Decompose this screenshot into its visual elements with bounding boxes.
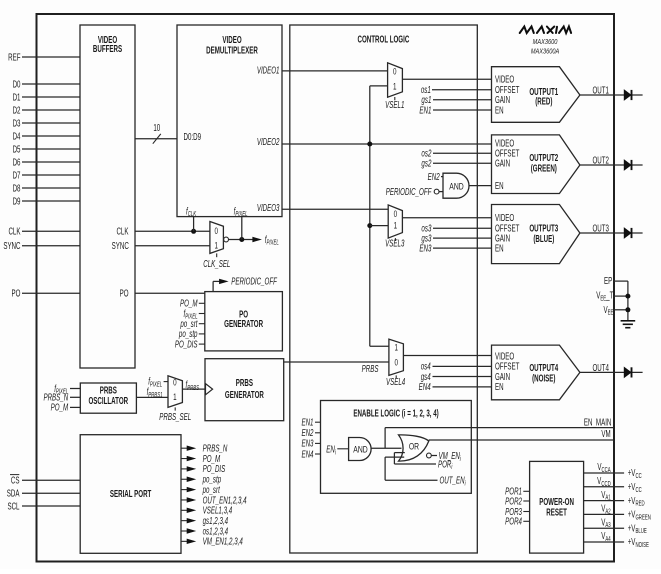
net VM_ENi	[431, 455, 437, 457]
svg-text:CS: CS	[11, 474, 20, 486]
output stage OUTPUT3	[492, 205, 580, 264]
serial port output po_stp	[181, 478, 189, 480]
svg-text:D7: D7	[13, 169, 21, 181]
svg-text:VIDEO2: VIDEO2	[257, 135, 280, 147]
svg-text:D5: D5	[13, 143, 21, 155]
svg-text:OUT1: OUT1	[593, 84, 610, 96]
wire AND output to OR	[371, 447, 401, 449]
svg-text:PO_M: PO_M	[180, 297, 198, 309]
svg-text:D8: D8	[13, 182, 21, 194]
mux VSEL1	[388, 63, 403, 97]
svg-text:EN: EN	[495, 242, 504, 254]
svg-text:1: 1	[173, 392, 176, 402]
svg-text:SCL: SCL	[7, 500, 19, 512]
svg-text:0: 0	[394, 357, 397, 367]
prbs generator block	[205, 359, 284, 421]
wire PO to PO generator	[135, 292, 205, 294]
enable logic block	[321, 401, 472, 494]
svg-text:D9: D9	[13, 195, 21, 207]
wire VIDEO2 to OUTPUT2 VIDEO input	[282, 143, 492, 145]
svg-text:OSCILLATOR: OSCILLATOR	[88, 394, 128, 406]
svg-text:SERIAL PORT: SERIAL PORT	[110, 488, 151, 500]
svg-text:GAIN: GAIN	[495, 157, 510, 169]
wire VIDEO1 to VSEL1 input 0	[282, 70, 388, 72]
bus D0:D9 wire with width-10 slash	[135, 138, 177, 140]
wire bus tap to VSEL1 input 1	[370, 85, 388, 87]
prbs oscillator block	[80, 383, 136, 413]
svg-text:PERIODIC_OFF: PERIODIC_OFF	[386, 185, 432, 197]
svg-text:D1: D1	[13, 91, 21, 103]
svg-text:VIDEO1: VIDEO1	[257, 64, 280, 76]
svg-text:1: 1	[214, 240, 217, 250]
serial port output PRBS_N	[181, 447, 189, 449]
svg-text:EN: EN	[495, 381, 504, 393]
serial port output gs1,2,3,4	[181, 520, 189, 522]
svg-text:CLK_SEL: CLK_SEL	[203, 257, 230, 269]
net VM from OR output	[429, 439, 614, 441]
wire VIDEO3 to VSEL3 input 0	[282, 208, 388, 210]
wire bus tap to VSEL3 input 1	[370, 225, 388, 227]
video buffers block	[80, 25, 135, 368]
svg-text:gs2: gs2	[421, 157, 431, 169]
net PERIODIC_OFF output arrow	[212, 281, 214, 291]
serial port output PO_DIS	[181, 468, 189, 470]
net OUT4	[580, 371, 643, 373]
svg-text:VIDEO3: VIDEO3	[257, 201, 280, 213]
control logic block	[290, 25, 478, 553]
svg-text:D4: D4	[13, 130, 21, 142]
output stage OUTPUT4	[492, 345, 580, 400]
svg-text:PO_M: PO_M	[51, 401, 69, 413]
junction at VSEL3 tap	[367, 223, 372, 228]
svg-text:PO: PO	[120, 287, 129, 299]
LED diode on OUT2	[624, 160, 631, 170]
wire OUT_EN riser into OR	[385, 456, 404, 458]
svg-text:(GREEN): (GREEN)	[531, 162, 557, 174]
svg-text:VM_ENi: VM_ENi	[439, 450, 462, 464]
junction CLK to demux fCLK	[191, 229, 196, 234]
svg-text:ENi: ENi	[326, 443, 336, 457]
svg-text:OUT_ENi: OUT_ENi	[440, 474, 467, 488]
mux VSEL4	[389, 339, 404, 375]
wire VSEL3 output to OUTPUT3 VIDEO	[402, 217, 491, 219]
net OUT_ENi	[385, 479, 437, 481]
net PORi	[394, 463, 436, 465]
or gate (enable logic)	[399, 435, 429, 461]
and gate U2	[443, 173, 469, 198]
svg-text:CLK: CLK	[8, 225, 20, 237]
svg-text:GENERATOR: GENERATOR	[224, 317, 263, 329]
LED diode on OUT3	[624, 228, 631, 238]
svg-text:PRBS: PRBS	[362, 362, 379, 374]
pin VA2 supply output	[584, 513, 625, 515]
mux VSEL3	[388, 205, 402, 238]
svg-text:CLK: CLK	[116, 225, 128, 237]
svg-text:(NOISE): (NOISE)	[532, 372, 556, 384]
wire bus tap to VSEL4 input 1	[370, 345, 389, 347]
svg-text:EN4: EN4	[419, 381, 431, 393]
output stage OUTPUT1	[492, 67, 580, 123]
svg-text:0: 0	[214, 226, 217, 236]
serial port output OUT_EN1,2,3,4	[181, 499, 189, 501]
mux CLK_SEL output inverter bubble	[224, 237, 229, 242]
svg-text:GENERATOR: GENERATOR	[225, 388, 264, 400]
wire fPIXEL riser into demux	[241, 217, 243, 240]
pin VCCA supply output	[584, 472, 625, 474]
svg-text:EN_MAIN: EN_MAIN	[584, 416, 611, 428]
svg-text:SYNC: SYNC	[112, 239, 129, 251]
svg-text:EN3: EN3	[419, 242, 431, 254]
fPIXEL output arrow	[252, 237, 262, 242]
wire PRBS into VSEL4 input 0	[284, 361, 389, 363]
net EN_MAIN	[385, 427, 613, 429]
wire fPRBS to PRBS generator	[182, 388, 205, 390]
vertical video-select bus from VSEL1 down to VSEL4	[369, 86, 371, 346]
svg-text:10: 10	[153, 121, 160, 133]
svg-text:(RED): (RED)	[535, 95, 552, 107]
svg-text:EN2: EN2	[428, 170, 440, 182]
net OUT2	[580, 164, 643, 166]
svg-text:VM_EN1,2,3,4: VM_EN1,2,3,4	[203, 535, 243, 547]
svg-text:0: 0	[173, 377, 176, 387]
mux CLK_SEL	[210, 222, 224, 254]
svg-text:D0: D0	[13, 78, 21, 90]
svg-text:PRBS_SEL: PRBS_SEL	[159, 410, 191, 422]
svg-text:VSEL1: VSEL1	[385, 98, 404, 110]
svg-text:ENABLE LOGIC (i = 1, 2, 3, 4): ENABLE LOGIC (i = 1, 2, 3, 4)	[353, 407, 439, 419]
svg-text:DEMULTIPLEXER: DEMULTIPLEXER	[206, 44, 258, 56]
serial port output po_srt	[181, 489, 189, 491]
pin VA4 supply output	[584, 541, 625, 543]
svg-text:REF: REF	[8, 51, 20, 63]
LED diode on OUT1	[624, 90, 631, 100]
serial port output os1,2,3,4	[181, 530, 189, 532]
svg-text:CONTROL LOGIC: CONTROL LOGIC	[358, 33, 410, 45]
svg-text:(BLUE): (BLUE)	[533, 232, 554, 244]
junction VEE	[625, 307, 630, 312]
MAXIM logo	[520, 27, 571, 34]
svg-text:EN1: EN1	[419, 104, 431, 116]
wire mux output to fPIXEL node	[229, 239, 255, 241]
svg-text:MAX3600: MAX3600	[533, 38, 558, 46]
mux PRBS_SEL	[168, 376, 182, 408]
svg-text:PRBS: PRBS	[236, 376, 254, 388]
serial port output VSEL1,3,4	[181, 509, 189, 511]
wire POR riser into OR	[394, 452, 404, 454]
svg-text:OUT2: OUT2	[593, 154, 610, 166]
output stage OUTPUT2	[492, 135, 580, 194]
ground symbol	[621, 320, 636, 322]
svg-text:D6: D6	[13, 156, 21, 168]
svg-text:0: 0	[394, 209, 397, 219]
prbs generator input buffer	[206, 384, 213, 395]
svg-text:D3: D3	[13, 117, 21, 129]
svg-text:VSEL3: VSEL3	[385, 237, 405, 249]
video demultiplexer block	[177, 25, 282, 217]
power-on reset block	[530, 461, 584, 553]
wire fPRBS1 oscillator output to PRBS_SEL input 1	[136, 396, 168, 398]
svg-text:VM: VM	[601, 427, 610, 439]
svg-text:0: 0	[393, 67, 396, 77]
svg-text:EN4: EN4	[301, 448, 313, 460]
svg-text:D2: D2	[13, 104, 21, 116]
svg-text:RESET: RESET	[546, 506, 567, 518]
serial port output VM_EN1,2,3,4	[181, 540, 189, 542]
svg-text:AND: AND	[449, 181, 463, 191]
svg-text:MAX3600A: MAX3600A	[531, 48, 560, 56]
wire EN_MAIN riser	[384, 428, 386, 449]
svg-text:1: 1	[394, 342, 397, 352]
svg-text:D0:D9: D0:D9	[184, 130, 202, 142]
serial port block	[80, 435, 181, 554]
junction VEE_T	[625, 294, 630, 299]
svg-text:OR: OR	[409, 442, 419, 452]
svg-text:1: 1	[394, 221, 397, 231]
svg-text:SDA: SDA	[7, 487, 20, 499]
inverted VM_ENi input bubble	[427, 453, 432, 458]
wire CLK to mux input 0	[135, 230, 210, 232]
pin VA1 supply output	[584, 500, 625, 502]
svg-text:OUT3: OUT3	[593, 222, 610, 234]
net OUT1	[580, 94, 643, 96]
svg-text:PO_DIS: PO_DIS	[175, 338, 198, 350]
wire fCLK riser into demux	[193, 217, 195, 232]
svg-text:OUT4: OUT4	[593, 361, 610, 373]
svg-text:AND: AND	[353, 445, 367, 455]
wire VEE vertical to ground	[627, 281, 629, 321]
wire AND output to OUTPUT2 EN	[470, 185, 492, 187]
serial port output PO_M	[181, 458, 189, 460]
and gate (enable logic)	[349, 438, 372, 461]
net OUT3	[580, 232, 643, 234]
wire VSEL4 output to OUTPUT4 VIDEO	[403, 355, 491, 357]
junction fPIXEL node	[239, 237, 244, 242]
svg-text:EP: EP	[604, 274, 613, 286]
po generator block	[205, 292, 283, 351]
svg-text:EN: EN	[495, 179, 504, 191]
pin VCCD supply output	[584, 486, 625, 488]
svg-text:BUFFERS: BUFFERS	[93, 43, 123, 55]
LED diode on OUT4	[624, 368, 631, 378]
svg-text:PERIODIC_OFF: PERIODIC_OFF	[231, 275, 277, 287]
svg-text:POR4: POR4	[505, 515, 522, 527]
wire VSEL1 output to OUTPUT1 VIDEO	[402, 78, 491, 80]
wire SYNC to mux input 1	[135, 245, 210, 247]
pin VA3 supply output	[584, 527, 625, 529]
svg-text:PO: PO	[12, 287, 21, 299]
svg-text:1: 1	[393, 81, 396, 91]
svg-text:SYNC: SYNC	[3, 239, 20, 251]
svg-text:EN: EN	[495, 104, 504, 116]
junction on VIDEO2 line	[367, 142, 372, 147]
svg-text:VSEL4: VSEL4	[386, 376, 406, 388]
